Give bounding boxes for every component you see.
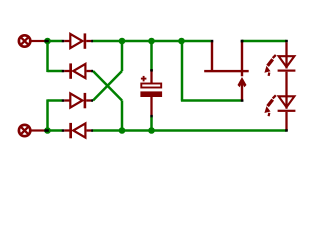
junction cap top: [148, 38, 155, 45]
capacitor C1 (polarized): [140, 69, 162, 117]
diode D1 (points right, row 1): [62, 33, 93, 48]
junction node A top: [44, 38, 51, 45]
Q1 lower pin: [241, 83, 243, 102]
black tick LED wire right end: [285, 40, 288, 43]
connector X1 (pinhead): [19, 35, 49, 46]
capacitor bottom plate: [140, 91, 162, 97]
wire bottom rail: [93, 129, 287, 132]
junction cap bottom: [148, 127, 155, 134]
wire capacitor top: [150, 40, 153, 71]
wire X vertical bottom: [121, 101, 124, 132]
junction node C top: [178, 38, 185, 45]
LED1 flash arrows: [268, 55, 276, 76]
junction X top: [119, 38, 126, 45]
wire left vertical upper (node A): [46, 40, 49, 72]
capacitor plus sign: [141, 78, 147, 80]
wire X vertical top: [121, 40, 124, 71]
wire bottom rail left segment: [48, 129, 63, 132]
diode D4 (points left, row 4): [62, 123, 93, 138]
junction node B bottom: [44, 127, 51, 134]
diode D3 (points right, row 3): [62, 93, 93, 108]
Q1 left pin from rail: [211, 42, 213, 71]
LED2 flash arrows: [268, 95, 276, 116]
LED LED1: [264, 42, 295, 96]
junction X bottom: [119, 127, 126, 134]
Q1 arrow: [238, 77, 247, 87]
diode D2 (points left, row 2): [62, 63, 93, 78]
wire left vertical lower (node B): [46, 99, 49, 131]
wire X diagonal falling: [93, 71, 122, 101]
Q1 right upper pin: [241, 42, 243, 77]
wire LED feed: [242, 40, 287, 43]
wire feedback horizontal: [181, 99, 241, 102]
wire row3 stub: [48, 99, 63, 102]
wire row2 stub: [48, 70, 63, 73]
wire X diagonal rising: [93, 71, 122, 101]
Q1 gate bar: [204, 70, 249, 72]
capacitor top plate: [141, 84, 161, 88]
LED LED2: [264, 95, 295, 131]
wire capacitor bottom: [150, 117, 153, 132]
black tick LED wire left end: [241, 40, 244, 43]
connector X2 (pinhead): [19, 125, 49, 136]
wire top rail mid segment: [93, 40, 211, 43]
wire top rail left segment: [48, 40, 63, 43]
transistor Q1 (current source / JFET): [204, 40, 249, 102]
wire feedback vertical (node C): [181, 40, 184, 101]
